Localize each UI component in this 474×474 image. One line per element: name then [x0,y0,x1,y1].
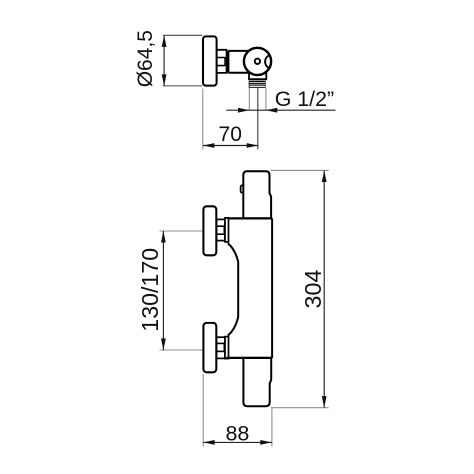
svg-text:130/170: 130/170 [137,248,163,332]
svg-text:Ø64,5: Ø64,5 [134,30,157,87]
svg-text:70: 70 [219,123,242,146]
svg-text:G 1/2”: G 1/2” [275,87,334,111]
svg-text:304: 304 [300,270,326,309]
svg-text:88: 88 [225,421,249,445]
